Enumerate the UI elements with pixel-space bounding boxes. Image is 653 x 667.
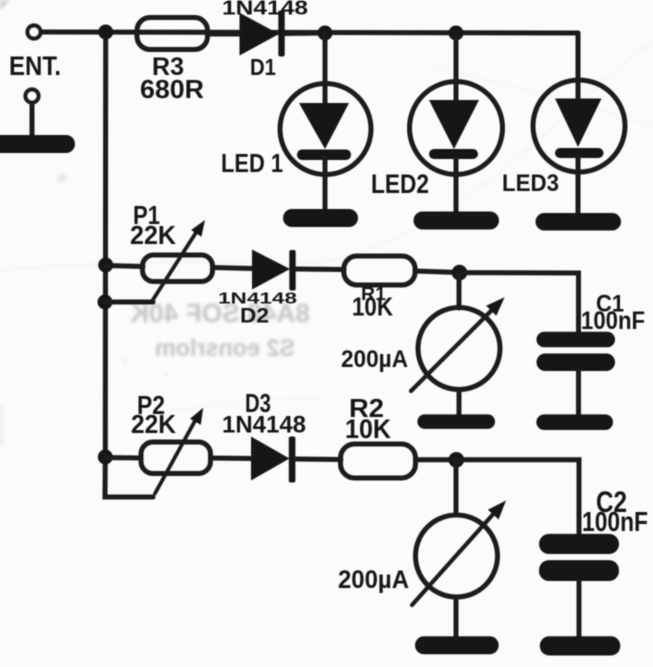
wire top bus xyxy=(41,32,578,33)
svg-text:1N4148: 1N4148 xyxy=(222,0,308,20)
svg-text:10K: 10K xyxy=(345,414,391,444)
svg-text:680R: 680R xyxy=(140,74,204,104)
terminal input top xyxy=(28,26,41,39)
resistor R1 xyxy=(344,256,415,285)
wire rail to P1 xyxy=(106,266,143,267)
wire node to meter M1 xyxy=(457,273,462,308)
ground C2 xyxy=(540,636,621,655)
capacitor C2 xyxy=(539,534,619,554)
diode D1 xyxy=(240,13,280,56)
wire P2 to D3 xyxy=(211,456,252,462)
svg-text:100nF: 100nF xyxy=(581,307,645,335)
wire into LED1 xyxy=(323,33,328,103)
wire R1 to node xyxy=(415,271,459,273)
wire D2 to R1 xyxy=(296,267,345,273)
wire LED3 to ground xyxy=(576,156,581,215)
ground M2 xyxy=(415,636,499,654)
svg-text:D1: D1 xyxy=(250,54,276,80)
wire into LED2 xyxy=(454,33,459,101)
meter M1 xyxy=(418,308,500,390)
wire meter M2 to ground xyxy=(454,597,459,639)
svg-text:200µA: 200µA xyxy=(341,346,408,373)
wire right drop to LED3 xyxy=(576,33,581,80)
svg-text:1N4148: 1N4148 xyxy=(222,412,306,439)
wire LED2 to ground xyxy=(454,157,459,214)
svg-text:LED2: LED2 xyxy=(371,169,429,199)
wire node to meter M2 xyxy=(454,460,459,515)
wire C1 to ground xyxy=(576,371,581,417)
node junction top-left xyxy=(98,25,113,40)
wire P1 to D2 xyxy=(213,268,253,269)
wire R3 to D1 xyxy=(208,32,241,37)
svg-text:LED3: LED3 xyxy=(502,170,559,197)
LED LED2 xyxy=(410,82,503,175)
svg-text:ENT.: ENT. xyxy=(9,51,61,81)
wire into LED3 xyxy=(576,80,581,99)
ground LED3 xyxy=(536,213,622,231)
terminal input bottom xyxy=(26,90,39,103)
wire rail to P1 wiper xyxy=(105,300,153,305)
wire R2 to node xyxy=(416,457,457,462)
meter M2 xyxy=(416,515,498,597)
svg-text:22K: 22K xyxy=(131,409,176,439)
wire rail to P2 xyxy=(105,455,141,461)
resistor R3 xyxy=(137,18,208,50)
potentiometer P2 xyxy=(141,442,211,474)
svg-text:22K: 22K xyxy=(130,220,176,250)
LED LED3 xyxy=(533,80,625,172)
wire LED1 to ground xyxy=(323,158,328,212)
ground LED2 xyxy=(414,212,500,230)
capacitor C1 xyxy=(537,332,616,348)
wire left rail xyxy=(105,32,153,497)
wire node to C1 xyxy=(460,273,579,333)
svg-text:D2: D2 xyxy=(240,305,269,328)
node junction P1 top xyxy=(98,258,113,273)
svg-text:S2 eonsrlom: S2 eonsrlom xyxy=(155,335,295,362)
wire terminal to ground bar xyxy=(30,103,35,137)
wire D1 to node xyxy=(284,31,325,37)
ground LED1 xyxy=(283,209,358,227)
svg-text:10K: 10K xyxy=(352,292,393,322)
svg-text:LED 1: LED 1 xyxy=(221,148,283,178)
node junction P2 xyxy=(98,450,113,465)
potentiometer P1 xyxy=(143,255,213,282)
ground input bar xyxy=(0,135,75,153)
svg-text:100nF: 100nF xyxy=(582,506,648,537)
node junction P1 bottom xyxy=(98,295,113,310)
wire D3 to R2 xyxy=(295,457,341,463)
svg-text:200µA: 200µA xyxy=(338,566,409,594)
node junction LED2 xyxy=(449,26,464,41)
ground M1 xyxy=(417,414,495,429)
diode D2 xyxy=(252,250,290,290)
resistor R2 xyxy=(341,444,416,478)
wire node to C2 xyxy=(456,460,579,535)
ground C1 xyxy=(536,414,613,430)
node junction M1 xyxy=(452,265,468,281)
diode D3 xyxy=(251,437,290,481)
wire meter M1 to ground xyxy=(457,390,462,418)
LED LED1 xyxy=(280,84,371,175)
wire C2 to ground xyxy=(577,581,582,639)
node junction M2 xyxy=(449,452,465,468)
node junction LED1 xyxy=(318,26,333,41)
